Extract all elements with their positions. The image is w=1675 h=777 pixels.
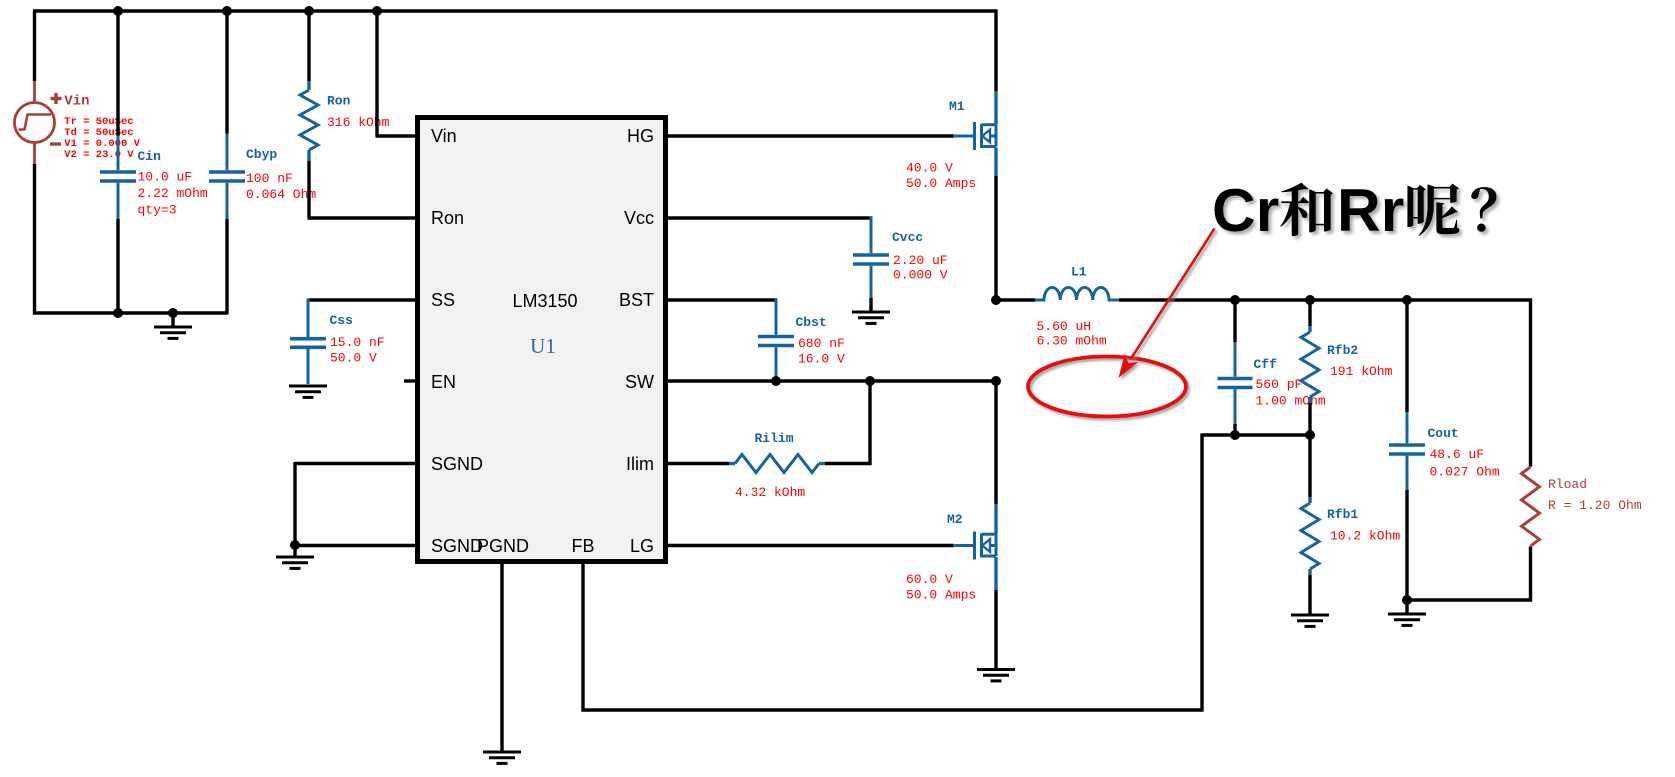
svg-text:U1: U1 — [530, 334, 556, 358]
node input ground — [168, 308, 178, 318]
node Cout top — [1402, 295, 1412, 305]
resistor R4 Rfb1 — [1308, 497, 1311, 503]
wire Cbyp lower — [225, 219, 228, 315]
resistor R5 Rload — [1529, 466, 1532, 467]
op-amp U1 LM3150 box — [418, 118, 666, 562]
ground Css — [289, 386, 327, 397]
node Cin bottom — [113, 308, 123, 318]
capacitor C3 Css — [307, 299, 310, 338]
wire Cout lower — [1405, 490, 1408, 602]
node Ron top — [304, 6, 314, 16]
wire Rilim to SW — [825, 462, 872, 465]
svg-text:LG: LG — [630, 536, 654, 556]
svg-text:SGND: SGND — [431, 536, 483, 556]
svg-text:PGND: PGND — [477, 536, 529, 556]
svg-text:50.0 Amps: 50.0 Amps — [906, 176, 976, 191]
node U1 Vin top — [372, 6, 382, 16]
svg-text:0.000 V: 0.000 V — [893, 268, 948, 283]
wire SGND1 — [295, 462, 418, 465]
svg-text:R = 1.20 Ohm: R = 1.20 Ohm — [1548, 498, 1642, 513]
wire M2 drain blue — [994, 504, 997, 534]
svg-text:680 nF: 680 nF — [798, 336, 845, 351]
svg-text:Ilim: Ilim — [626, 454, 654, 474]
svg-text:1.00 mOhm: 1.00 mOhm — [1256, 394, 1326, 409]
ground Cvcc — [852, 312, 890, 323]
wire Cin upper — [116, 11, 119, 136]
wire SS — [308, 298, 417, 301]
wire M2 drain black — [994, 381, 997, 504]
node Cff top — [1230, 295, 1240, 305]
wire output rail — [1119, 298, 1532, 301]
svg-text:Rload: Rload — [1548, 477, 1587, 492]
ground input rail — [171, 313, 174, 326]
svg-text:0.064 Ohm: 0.064 Ohm — [246, 187, 316, 202]
svg-text:EN: EN — [431, 372, 456, 392]
wire LG — [665, 544, 954, 547]
capacitor C7 Cout — [1406, 412, 1409, 443]
svg-text:16.0 V: 16.0 V — [798, 352, 845, 367]
node SW L1 — [991, 295, 1001, 305]
node Cin top — [113, 6, 123, 16]
ground PGND — [483, 752, 521, 763]
transistor M2 — [953, 532, 996, 560]
svg-text:SW: SW — [625, 372, 654, 392]
svg-text:LM3150: LM3150 — [512, 291, 577, 311]
svg-text:Rilim: Rilim — [755, 431, 794, 446]
node Cout bottom — [1402, 595, 1412, 605]
svg-text:100 nF: 100 nF — [246, 171, 293, 186]
wire Cff lower — [1233, 424, 1236, 435]
inductor L1 — [1035, 287, 1119, 300]
annotation text Cr和Rr呢？ — [1212, 176, 1497, 244]
svg-text:2.20 uF: 2.20 uF — [893, 253, 948, 268]
svg-text:HG: HG — [627, 126, 654, 146]
wire Rfb2 upper — [1308, 300, 1311, 326]
svg-text:2.22 mOhm: 2.22 mOhm — [138, 186, 208, 201]
svg-text:SGND: SGND — [431, 454, 483, 474]
node Rfb2 bottom — [1305, 430, 1315, 440]
wire PGND — [500, 561, 503, 751]
svg-text:Cbst: Cbst — [796, 315, 827, 330]
svg-text:M1: M1 — [949, 99, 965, 114]
svg-text:qty=3: qty=3 — [138, 203, 177, 218]
svg-text:BST: BST — [619, 290, 654, 310]
wire Rfb1 lower — [1308, 575, 1311, 614]
svg-text:60.0 V: 60.0 V — [906, 572, 953, 587]
wire U1 Vin — [375, 11, 378, 136]
pin stub EN — [404, 379, 417, 382]
ground M2 — [977, 670, 1015, 681]
svg-text:Cin: Cin — [138, 149, 162, 164]
wire Rload upper — [1529, 299, 1532, 467]
node SW Cbst — [771, 376, 781, 386]
wire Rfb2 lower — [1308, 403, 1311, 435]
svg-text:M2: M2 — [947, 512, 963, 527]
wire top rail — [33, 9, 998, 12]
wire M2 source blue — [994, 557, 997, 590]
svg-text:L1: L1 — [1071, 265, 1087, 280]
ground Cout — [1405, 600, 1408, 613]
wire SGND2 — [294, 544, 419, 547]
svg-text:4.32 kOhm: 4.32 kOhm — [735, 485, 805, 500]
svg-text:15.0 nF: 15.0 nF — [330, 335, 385, 350]
node SW M — [991, 376, 1001, 386]
svg-text:FB: FB — [571, 536, 594, 556]
wire SW — [665, 379, 998, 382]
wire Cout upper — [1405, 300, 1408, 412]
node Cbyp top — [222, 6, 232, 16]
ground SGND — [293, 545, 296, 556]
capacitor C2 Cbyp — [226, 134, 229, 220]
wire Cin lower — [116, 219, 119, 315]
svg-text:50.0 V: 50.0 V — [330, 351, 377, 366]
wire FB junction rail — [1202, 433, 1312, 436]
capacitor C1 Cin — [117, 136, 120, 220]
wire Cbyp upper — [225, 11, 228, 134]
svg-text:50.0 Amps: 50.0 Amps — [906, 588, 976, 603]
svg-text:Rfb2: Rfb2 — [1327, 343, 1358, 358]
wire Rload lower — [1529, 547, 1532, 602]
svg-text:316 kOhm: 316 kOhm — [327, 115, 390, 130]
wire M2 source down — [994, 590, 997, 669]
node SGND — [290, 540, 300, 550]
transistor M1 — [953, 122, 996, 150]
wire FB right riser — [1200, 434, 1203, 712]
capacitor C5 Cbst — [775, 299, 778, 335]
svg-text:Cout: Cout — [1428, 426, 1459, 441]
wire BST — [665, 298, 778, 301]
wire bottom-left rail — [33, 311, 227, 314]
voltage source Vin — [15, 81, 62, 164]
wire left vertical upper (Vin +) — [33, 11, 36, 81]
wire L1 left — [996, 298, 1035, 301]
svg-text:Rr: Rr — [1337, 176, 1404, 244]
svg-text:SS: SS — [431, 290, 455, 310]
node Rfb2 top — [1305, 295, 1315, 305]
wire HG — [665, 134, 954, 137]
wire FB down — [581, 561, 584, 712]
wire M1 drain blue — [994, 91, 997, 125]
wire M1 drain from top rail — [994, 10, 997, 92]
wire Cff upper — [1233, 300, 1236, 342]
wire M1 source blue — [994, 148, 997, 177]
svg-text:5.60 uH: 5.60 uH — [1037, 319, 1092, 334]
capacitor C4 Cvcc — [870, 217, 873, 254]
svg-text:6.30 mOhm: 6.30 mOhm — [1037, 334, 1107, 349]
resistor R3 Rfb2 — [1308, 326, 1311, 332]
annotation arrow — [1119, 229, 1215, 379]
svg-text:0.027 Ohm: 0.027 Ohm — [1430, 465, 1500, 480]
resistor R2 Rilim — [729, 462, 735, 465]
svg-text:10.2 kOhm: 10.2 kOhm — [1330, 529, 1400, 544]
svg-text:Css: Css — [330, 313, 354, 328]
svg-text:40.0 V: 40.0 V — [906, 161, 953, 176]
svg-text:191 kOhm: 191 kOhm — [1330, 364, 1393, 379]
svg-text:V2 = 23.0 V: V2 = 23.0 V — [64, 149, 134, 161]
capacitor C6 Cff — [1234, 342, 1237, 377]
wire Ron upper — [307, 11, 310, 81]
wire Ron lower — [307, 161, 310, 218]
resistor R1 Ron — [307, 81, 310, 90]
wire left vertical lower — [33, 164, 36, 315]
svg-text:Cbyp: Cbyp — [246, 147, 277, 162]
wire Rfb1 upper — [1308, 435, 1311, 497]
annotation ellipse — [1028, 357, 1186, 417]
svg-text:Cvcc: Cvcc — [892, 230, 923, 245]
svg-text:Cr: Cr — [1212, 176, 1279, 244]
svg-text:Cff: Cff — [1254, 357, 1278, 372]
svg-text:Rfb1: Rfb1 — [1327, 507, 1358, 522]
svg-text:Ron: Ron — [327, 94, 351, 109]
ground Rfb1 — [1291, 615, 1329, 626]
wire Cvcc gnd stub — [869, 298, 872, 311]
node Cff bottom — [1230, 430, 1240, 440]
svg-text:10.0 uF: 10.0 uF — [138, 170, 193, 185]
svg-text:Vcc: Vcc — [624, 208, 654, 228]
svg-text:560 pF: 560 pF — [1256, 377, 1303, 392]
node SW Rilim — [865, 376, 875, 386]
svg-text:Vin: Vin — [64, 94, 89, 110]
wire Vcc — [665, 216, 873, 219]
svg-text:Ron: Ron — [431, 208, 464, 228]
wire Ilim — [665, 462, 729, 465]
svg-text:Vin: Vin — [431, 126, 457, 146]
wire FB bottom rail — [582, 708, 1204, 711]
svg-text:48.6 uF: 48.6 uF — [1430, 447, 1485, 462]
wire M1 source down — [994, 176, 997, 302]
